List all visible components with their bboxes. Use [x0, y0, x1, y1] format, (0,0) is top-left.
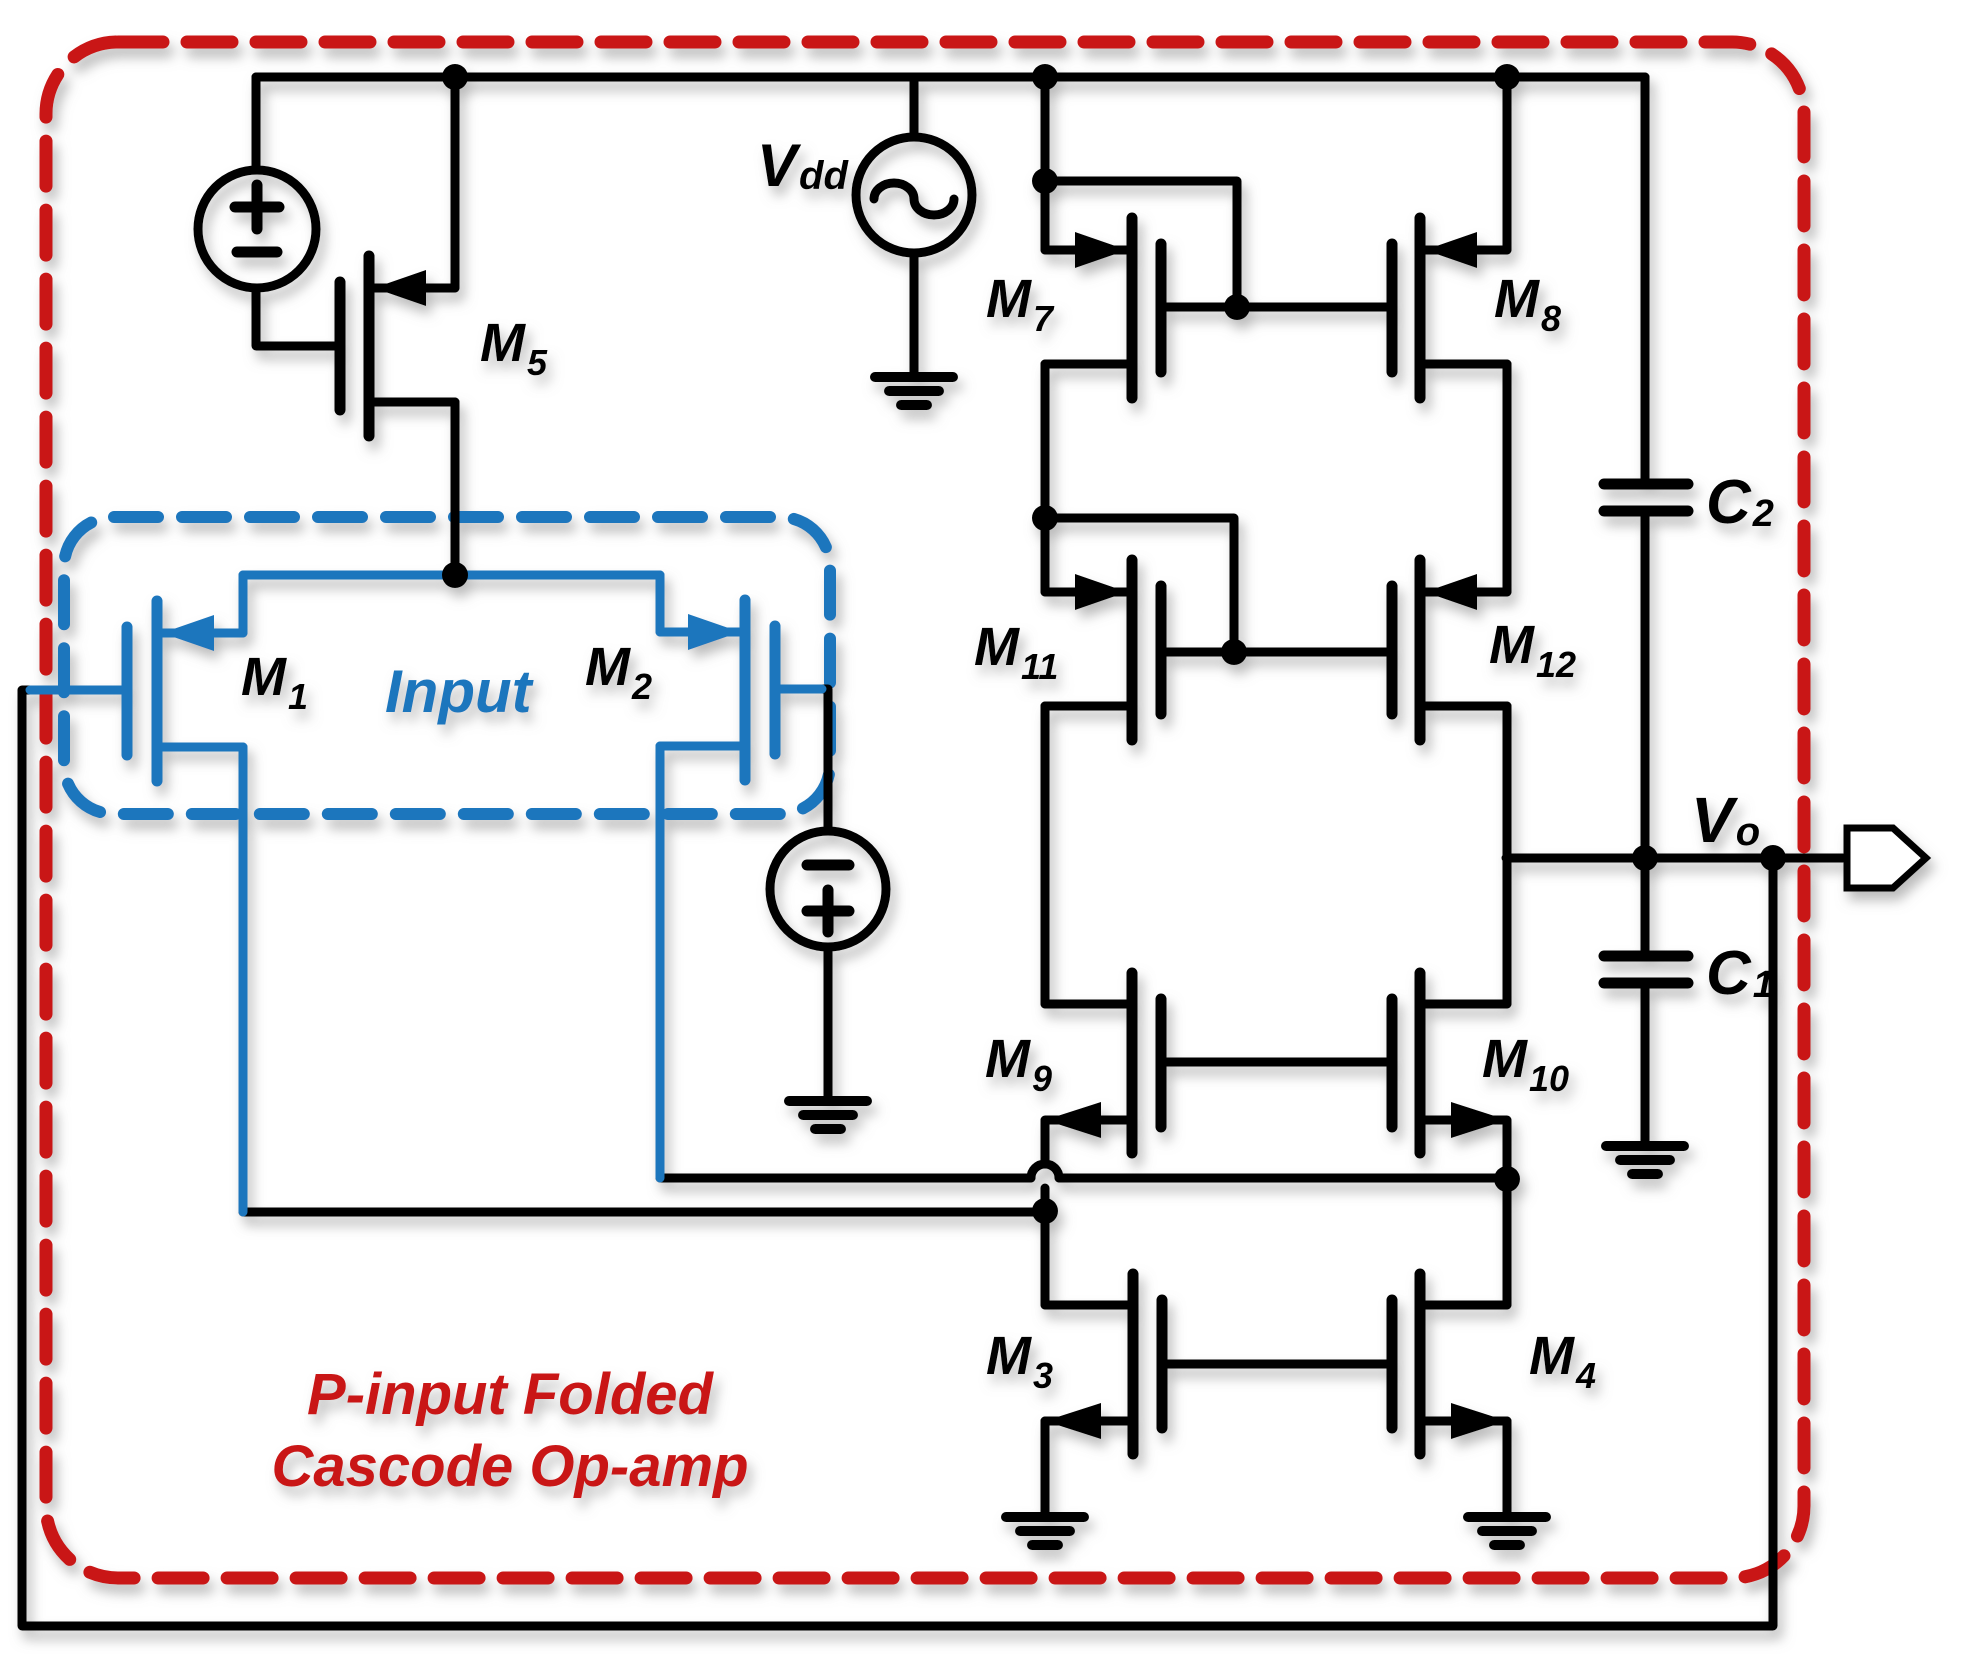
wire rail to M8 source	[1503, 77, 1512, 250]
output port symbol	[1847, 828, 1926, 888]
wire rail to M5 source	[451, 77, 460, 288]
ground (C1)	[1606, 1146, 1684, 1174]
wire M4 source to ground	[1503, 1421, 1512, 1517]
wire M7 gate bias	[1045, 181, 1237, 307]
transistor M12 (PMOS cascode right)	[1392, 560, 1507, 740]
wire input pair common source	[243, 571, 660, 580]
wire M5 drain to input pair node	[451, 402, 460, 575]
ground (Vdd source)	[875, 377, 953, 405]
wire M1 gate lead	[30, 686, 127, 695]
wire M9 source down to node A (with hop)	[1041, 1121, 1050, 1164]
wire rail to Vdd source	[910, 77, 919, 137]
wire M7-M8 gate	[1161, 303, 1392, 312]
node: rail / M8	[1494, 64, 1520, 90]
node: rail / M7	[1032, 64, 1058, 90]
capacitor C2	[1604, 484, 1688, 511]
node A: M1 drain / M9 source / M3 drain	[1032, 1198, 1058, 1224]
wire C1 bottom to ground	[1641, 988, 1650, 1146]
node: Vo / feedback	[1760, 845, 1786, 871]
svg-text:Cascode Op-amp: Cascode Op-amp	[272, 1434, 749, 1499]
node: M11-M12 gate junction	[1221, 639, 1247, 665]
blue dashed box around input pair	[64, 517, 830, 814]
voltage source V1 (bias, + over -)	[198, 170, 316, 288]
wire M10 source to M4 drain	[1503, 1121, 1512, 1305]
wire M2 gate lead	[775, 685, 822, 694]
wire V1 bottom to M5 gate	[256, 288, 340, 346]
node: M7 gate bias tap	[1032, 168, 1058, 194]
wire M11-M12 gate	[1161, 648, 1392, 657]
wire V2 bottom to ground	[824, 947, 833, 1101]
transistor M10 (NMOS cascode right)	[1392, 973, 1507, 1153]
node B: M2 drain / M10 source / M4 drain	[1494, 1166, 1520, 1192]
transistor M4 (NMOS mirror right)	[1392, 1274, 1507, 1454]
wire M2 source link	[656, 575, 665, 632]
wire M1 drain to node A	[243, 1208, 1045, 1217]
wire Vo output line	[1506, 854, 1843, 863]
transistor M9 (NMOS cascode left)	[1045, 973, 1161, 1153]
ground (M4 source)	[1468, 1517, 1546, 1545]
wire Vdd source to ground	[910, 253, 919, 377]
wire M3 source to ground	[1041, 1421, 1050, 1517]
ground (M3 source)	[1006, 1517, 1084, 1545]
wire Vo node to C1 top	[1641, 858, 1650, 951]
transistor M11 (PMOS cascode left)	[1045, 560, 1161, 740]
wire M2 gate to source V2	[820, 689, 828, 831]
node: M11 gate bias tap	[1032, 505, 1058, 531]
node: rail / M5	[442, 64, 468, 90]
wire rail to M7 source	[1041, 77, 1050, 250]
ground (V2 source)	[789, 1101, 867, 1129]
transistor M2 (PMOS input right)	[660, 600, 775, 780]
capacitor C1	[1604, 956, 1688, 983]
wire hop (no connection) crossing	[1031, 1164, 1059, 1178]
wire M12 drain to M10 drain (output branch)	[1503, 706, 1512, 1004]
svg-text:P-input Folded: P-input Folded	[307, 1362, 714, 1427]
wire C2 bottom to Vo node	[1641, 516, 1650, 858]
wire M7 drain to M11 source	[1041, 364, 1050, 592]
voltage source Vdd (AC symbol)	[856, 137, 972, 253]
wire M2 drain to M10 source (crosses under hop)	[660, 1174, 1031, 1183]
wire VDD top rail	[256, 73, 1645, 82]
transistor M3 (NMOS mirror left)	[1045, 1274, 1162, 1454]
wire rail to C2	[1641, 77, 1650, 479]
wire M1 drain down	[239, 747, 248, 1212]
voltage source V2 (bias, - over +)	[770, 831, 886, 947]
transistor M8 (PMOS mirror right)	[1392, 218, 1507, 398]
wire M1 source link	[239, 575, 248, 633]
node: M7-M8 gate junction	[1224, 294, 1250, 320]
transistor M1 (PMOS input left)	[127, 601, 243, 781]
node: tail to input pair	[442, 562, 468, 588]
transistor M7 (PMOS mirror left)	[1045, 218, 1161, 398]
wire M11 gate bias	[1045, 518, 1234, 652]
wire M8 drain to M12 source	[1503, 364, 1512, 592]
svg-text:Input: Input	[385, 658, 535, 725]
wire M2 drain down	[656, 746, 665, 1178]
wire rail to bias source V1 top	[252, 77, 261, 170]
wire M9-M10 gate	[1161, 1058, 1392, 1067]
transistor M5 (PMOS tail current source)	[340, 256, 455, 436]
wire feedback Vo to M1 gate	[22, 690, 1773, 1626]
wire M3-M4 gate	[1162, 1360, 1392, 1369]
wire M11 drain to M9 drain	[1041, 706, 1050, 1004]
node: Vo / C2 / C1	[1632, 845, 1658, 871]
